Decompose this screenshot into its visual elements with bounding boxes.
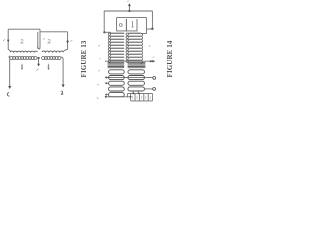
label below center tap xyxy=(37,69,39,71)
coil left stack dense winding (Fig14) xyxy=(108,62,125,64)
junction dot on upper tap xyxy=(150,60,152,62)
label small near top coils xyxy=(43,38,45,39)
wire outer top rail (Fig14) xyxy=(104,10,152,12)
junction dots on comb rail xyxy=(132,93,134,95)
junction dot right (Fig14) xyxy=(151,28,153,30)
coil primary P1 left section (Fig13) xyxy=(8,50,10,53)
wire middle step vertical a (Fig13) xyxy=(39,29,41,49)
wire inner right vertical (Fig14) xyxy=(145,18,147,29)
caption FIGURE 13 xyxy=(80,26,88,92)
arrowhead current direction left branch xyxy=(7,40,10,43)
wire left stack bottom to comb (Fig14) xyxy=(106,96,131,98)
glyph inside box B2 xyxy=(132,21,134,27)
arrowhead antenna up xyxy=(128,3,131,6)
wire middle step vertical b (Fig13) xyxy=(37,32,39,49)
tap wire mid-right to ring (Fig14) xyxy=(145,88,153,90)
wire right vertical (Fig13) xyxy=(67,32,69,50)
arrowhead secondary terminal (Fig13) xyxy=(8,86,11,89)
tap wire upper (Fig14) xyxy=(105,60,153,62)
box element B2 (Fig14) xyxy=(126,19,137,31)
coil secondary S1 left section loops (Fig13) xyxy=(9,56,10,59)
wire secondary left lead down (Fig13) xyxy=(9,59,11,87)
comb left hook xyxy=(127,93,129,97)
label 2 (winding) xyxy=(21,39,24,43)
wire center tap down (Fig13) xyxy=(38,58,40,65)
stack to comb vertical b xyxy=(138,91,140,93)
tap wire lower (Fig14) xyxy=(105,77,153,79)
caption FIGURE 14 xyxy=(166,26,174,92)
coil left stack lower loop turns with tap dots (Fig14) xyxy=(109,70,125,74)
margin tick labels (Fig14 left) xyxy=(97,45,101,99)
wire secondary right lead down (Fig13) xyxy=(61,57,63,85)
comb cell tick labels xyxy=(133,96,151,99)
arrowhead current direction right branch xyxy=(66,41,69,44)
wire antenna lead up (Fig14) xyxy=(128,5,130,11)
arrowhead secondary right terminal (Fig13) xyxy=(62,85,65,88)
wire inner top rail (Fig14) xyxy=(117,17,147,19)
stack to comb vertical a xyxy=(132,91,134,93)
wire to left stack top (Fig14) xyxy=(104,31,111,33)
tick label right of arrow xyxy=(71,40,73,41)
wire top-left horizontal (Fig13 primary loop top) xyxy=(8,28,40,30)
junction dot center tap (Fig13) xyxy=(38,57,40,59)
junction dot at top rail / antenna lead (Fig14) xyxy=(128,10,130,12)
wire top-right horizontal (Fig13) xyxy=(40,31,68,33)
coil right stack upper turns (Fig14) xyxy=(128,32,140,34)
junction dot left (Fig14) xyxy=(103,31,105,33)
box element B1 (Fig14) xyxy=(117,18,127,31)
label above antenna arrow xyxy=(127,1,129,2)
terminal letter label (Fig13 bottom) xyxy=(7,93,9,96)
terminal letter label right (Fig13 bottom) xyxy=(61,91,64,94)
comb bottom rail xyxy=(131,100,153,102)
tick label left of arrow xyxy=(3,39,5,41)
coil primary P1 right section (Fig13) xyxy=(38,47,40,49)
label 2 right winding (Fig13) xyxy=(48,39,51,43)
arrowhead upper tap terminal xyxy=(152,60,155,63)
coil left stack upper turns (Fig14) xyxy=(111,32,125,34)
arrowhead center tap terminal xyxy=(37,64,40,67)
margin tick label near right stack xyxy=(149,45,151,46)
wire feed to right stack top (Fig14) xyxy=(141,29,146,33)
polarity mark right winding (Fig13) xyxy=(48,64,50,68)
terminal ring lower tap (Fig14) xyxy=(153,77,156,80)
coil right stack dense winding (Fig14) xyxy=(128,62,146,64)
polarity mark left winding (Fig13) xyxy=(21,64,23,68)
glyph inside box B1 xyxy=(119,24,122,27)
wire outer right vertical (Fig14) xyxy=(151,11,153,29)
coil right stack lower loop turns (Fig14) xyxy=(128,70,145,74)
wire outer left vertical (Fig14) xyxy=(103,11,105,32)
comb verticals xyxy=(130,93,132,101)
comb top rail (Fig14 terminal block) xyxy=(128,92,153,94)
wire left vertical (Fig13) xyxy=(7,29,9,49)
coil secondary S1 right section loops (Fig13) xyxy=(42,57,45,60)
wire inner right to outer right (Fig14) xyxy=(146,28,152,30)
label near upper tap terminal xyxy=(153,57,155,58)
terminal ring mid-right (Fig14) xyxy=(153,88,156,91)
